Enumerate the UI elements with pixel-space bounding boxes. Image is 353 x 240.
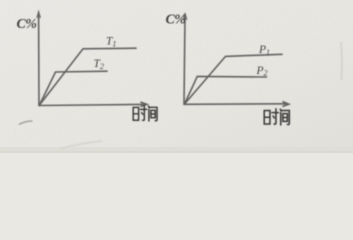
faint diagonal smudge bottom-center	[60, 141, 102, 149]
y-axis	[184, 16, 185, 104]
y-axis	[38, 15, 40, 106]
y-axis arrowhead	[183, 13, 186, 20]
x-axis arrowhead	[283, 102, 289, 107]
label 时间 left	[133, 106, 157, 121]
label 时间 right	[264, 109, 289, 125]
x-axis	[39, 104, 145, 105]
y-axis arrowhead	[37, 12, 40, 18]
faint vertical smudge right edge	[340, 42, 343, 80]
scan noise overlay	[0, 0, 353, 153]
stray pencil dash bottom-left	[19, 121, 33, 125]
x-axis arrowhead	[141, 102, 147, 106]
curve P1	[185, 54, 283, 104]
curve T1	[40, 48, 137, 105]
x-axis	[184, 103, 286, 106]
curve T2	[40, 71, 108, 105]
curve P2	[185, 76, 267, 104]
